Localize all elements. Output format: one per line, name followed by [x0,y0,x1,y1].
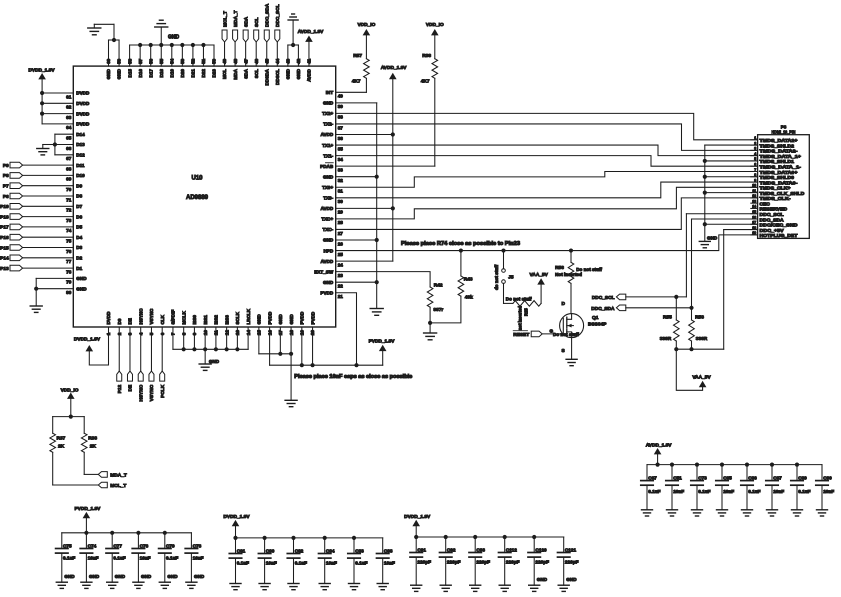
connector flag MDA_T [98,472,127,479]
svg-text:I2S3: I2S3 [224,315,229,325]
connector flag DDC_SDA [591,305,626,312]
svg-text:75: 75 [66,239,72,244]
connector flag MDA_T pin 48 [233,10,239,66]
svg-text:DE: DE [128,384,134,391]
junction GND pin17 [278,352,282,356]
svg-text:D10: D10 [76,173,85,178]
svg-text:P18: P18 [0,214,9,220]
svg-text:GND: GND [64,574,75,579]
svg-text:70: 70 [66,187,72,192]
svg-text:C74: C74 [88,543,97,548]
svg-text:TMDS_DATA0+: TMDS_DATA0+ [760,170,798,175]
wire R43 bottom to ground node [430,296,461,323]
svg-text:23: 23 [338,273,344,278]
junction DDC_SDA at R58 [689,306,693,310]
capacitor C90 10nF [816,465,834,510]
svg-text:R38: R38 [422,53,431,59]
ground symbol C82 [288,584,299,590]
junction C112 on rail [503,535,507,539]
svg-text:C90: C90 [823,475,832,480]
svg-text:P14: P14 [0,256,9,262]
svg-text:R57: R57 [353,53,362,59]
svg-text:GND: GND [289,314,294,325]
svg-text:76: 76 [66,249,72,254]
svg-text:GND: GND [194,574,205,579]
svg-text:10nF: 10nF [384,561,395,566]
svg-text:TMDS_DATA_1+: TMDS_DATA_1+ [760,154,802,159]
junction R42/R43 gnd node [428,321,432,325]
svg-text:do not stuff: do not stuff [494,264,499,290]
svg-text:R38: R38 [88,435,97,441]
ground symbol C83 [349,584,360,590]
capacitor C80 10nF [258,538,276,584]
svg-text:PVDD_1.8V: PVDD_1.8V [369,338,396,344]
svg-text:C83: C83 [355,548,364,553]
svg-text:MCL: MCL [222,69,227,79]
wire Q1 source to ground [562,338,572,360]
svg-text:GND: GND [707,236,718,241]
junction GND pin22 [375,280,379,284]
svg-text:RESERVED: RESERVED [760,207,788,212]
svg-text:VDD_IO: VDD_IO [357,22,375,28]
svg-text:MDA_T: MDA_T [110,473,127,479]
svg-text:I2S1: I2S1 [203,315,208,325]
svg-text:D18: D18 [159,69,164,78]
capacitor C92 220pF [440,537,461,585]
svg-text:TMDS_CLK-: TMDS_CLK- [760,196,792,201]
svg-text:30: 30 [338,199,344,204]
capacitor C75 0.1uF [56,533,76,582]
power PVDD_1.8V arrow [74,506,101,533]
svg-text:AVDD_1.8V: AVDD_1.8V [298,29,325,35]
svg-text:RESET: RESET [513,332,529,338]
svg-text:SDA: SDA [243,68,248,78]
capacitor C88 10nF [377,538,395,584]
U10 left-edge pin names [76,91,90,292]
svg-text:5: 5 [754,157,756,161]
ground symbol shield [699,241,710,247]
svg-text:Not inserted: Not inserted [555,272,582,277]
capacitor C51 10nF [666,465,684,510]
svg-text:220pF: 220pF [535,560,549,565]
junction R55 bottom [674,347,678,351]
svg-text:19: 19 [752,231,756,235]
svg-text:D3: D3 [76,245,82,250]
connector flag DDC_SCL [592,294,626,301]
svg-text:17: 17 [752,221,756,225]
capacitor C121 220pF [558,537,579,585]
svg-text:DDC_SDA: DDC_SDA [264,3,270,27]
svg-text:34: 34 [338,157,344,162]
svg-text:39: 39 [338,104,344,109]
svg-text:10nF: 10nF [326,561,337,566]
svg-text:64: 64 [66,125,72,130]
svg-text:72: 72 [66,208,72,213]
wire GND pins 39,32,26,22 to ground rail [336,103,377,309]
svg-text:D4: D4 [76,235,82,240]
svg-text:C120: C120 [535,547,547,552]
svg-text:TMDS_SHLD2: TMDS_SHLD2 [760,143,795,148]
svg-text:PVDD_1.8V: PVDD_1.8V [74,506,101,512]
svg-text:2K: 2K [58,444,65,450]
svg-text:2: 2 [754,141,756,145]
svg-text:VDD_IO: VDD_IO [61,388,79,394]
wire AVDD_1.8V decoupling rail [647,464,822,466]
junctions audio bus [182,347,240,351]
junction AVDD pin36 [391,132,395,136]
svg-text:2K: 2K [90,444,97,450]
svg-text:10nF: 10nF [193,556,204,561]
svg-text:C51: C51 [673,475,682,480]
svg-text:D12: D12 [76,153,85,158]
ground symbol C75 [56,582,67,588]
junction C85 on rail [720,463,724,467]
svg-text:26: 26 [338,241,344,246]
svg-text:C86: C86 [748,475,757,480]
junction shield pin11 [703,191,707,195]
svg-text:TX2+: TX2+ [322,111,333,116]
junction C91 on rail [414,535,418,539]
svg-text:PVDD: PVDD [310,311,315,324]
capacitor C112 220pF [499,537,520,585]
svg-text:GND: GND [209,359,220,364]
wire TXC- pin27 to TMDS_CLK- [336,198,758,230]
svg-text:DDC_SCL: DDC_SCL [760,212,784,217]
svg-text:GND: GND [323,174,334,179]
svg-text:TMDS_CLK_SHLD: TMDS_CLK_SHLD [760,191,806,196]
svg-text:0.1uF: 0.1uF [63,556,75,561]
svg-text:10nF: 10nF [673,489,684,494]
ground symbol C78 [186,582,197,588]
svg-text:R56: R56 [555,265,564,271]
svg-text:10nF: 10nF [723,489,734,494]
svg-text:10nF: 10nF [140,556,151,561]
junction PVDD pin19 [300,363,304,367]
junction PVDD pin21 wire [354,363,358,367]
svg-text:C92: C92 [447,547,456,552]
junction GND pin18 [289,352,293,356]
wire TX1+ pin35 to TMDS_DATA_1+ [336,145,758,156]
svg-text:0.1uF: 0.1uF [113,556,125,561]
svg-text:TX0+: TX0+ [322,185,333,190]
junction AVDD_1.8V arrow on rail [656,463,660,467]
svg-text:TMDS_DATA2+: TMDS_DATA2+ [760,138,798,143]
svg-text:GND: GND [141,574,152,579]
connector flag VSYNC at pin 5 [149,327,155,401]
svg-text:P6: P6 [3,194,9,200]
ground symbol C93 [470,585,481,591]
ground symbol C84 [319,584,330,590]
svg-text:GND: GND [566,577,577,582]
junction shield pin8 [703,175,707,179]
ground symbol below Q1 [566,359,577,365]
capacitor C82 0.1uF [287,538,307,584]
connector flag DE at pin 3 [127,327,133,391]
svg-text:P17: P17 [0,225,9,231]
connector flag P18 to pin 73 [0,214,73,221]
svg-text:220pF: 220pF [417,560,431,565]
svg-text:330R: 330R [660,336,672,342]
svg-text:73: 73 [66,218,72,223]
svg-text:79: 79 [66,280,72,285]
svg-text:32: 32 [338,178,344,183]
ground symbol at D12-D14 [37,149,49,155]
svg-text:C91: C91 [417,547,426,552]
svg-text:DVDD: DVDD [76,101,90,106]
svg-text:C78: C78 [193,543,202,548]
svg-text:R55: R55 [663,314,672,320]
svg-text:PVDD: PVDD [320,290,333,295]
svg-text:P7: P7 [3,184,9,190]
svg-text:I2S2: I2S2 [214,315,219,325]
wire GND pins 59,60 to ground [94,24,119,66]
wire R55/R58 common node to DDC_+5V [676,230,757,350]
svg-text:HOTPLUG_DET: HOTPLUG_DET [760,233,798,238]
ground symbol below R42 [424,323,437,340]
svg-text:8: 8 [754,173,756,177]
svg-text:D20: D20 [180,69,185,78]
svg-text:220pF: 220pF [506,560,520,565]
svg-text:AVDD_1.8V: AVDD_1.8V [646,442,673,448]
svg-text:330R: 330R [696,336,708,342]
wire HPD pin25 to HOTPLUG_DET [336,235,758,251]
svg-text:15: 15 [752,210,756,214]
ground symbol C51 [667,510,678,516]
svg-text:D21: D21 [191,69,196,78]
svg-text:D7: D7 [76,204,82,209]
svg-text:AVDD: AVDD [321,206,334,211]
svg-text:40: 40 [338,94,344,99]
svg-text:GND: GND [167,574,178,579]
junction D13 pin66 [53,142,57,146]
svg-text:220pF: 220pF [565,560,579,565]
U10 right-edge pin numbers 21-40 [338,94,344,299]
svg-text:R42: R42 [434,283,443,289]
capacitor C83 0.1uF [348,538,368,584]
svg-text:GND: GND [278,314,283,325]
junction DVDD pin62 [40,101,44,105]
svg-text:GND: GND [115,574,126,579]
svg-text:7: 7 [754,168,756,172]
ground symbol C120 [529,585,540,591]
svg-text:D13: D13 [76,142,85,147]
ground symbol C79 [159,582,170,588]
wire R37 to MCL_T [53,452,99,485]
svg-text:P12: P12 [117,384,123,393]
svg-text:C82: C82 [295,548,304,553]
connector flag DDC_SCL pin 44 [275,4,281,66]
svg-text:TX2-: TX2- [323,122,333,127]
junction DVDD pin63 [40,112,44,116]
U10 right-edge pin names [314,90,334,295]
wire R38 to MDA_T [84,452,98,474]
junction C89 on rail [795,463,799,467]
svg-text:R58: R58 [695,314,704,320]
junction AVDD pin29 [391,206,395,210]
svg-text:Please place R74 close as poss: Please place R74 close as possible to Pi… [401,241,520,247]
svg-text:80: 80 [66,290,72,295]
U10 left-edge pin numbers 61-80 [66,94,72,295]
svg-text:HDMI_19_PIN: HDMI_19_PIN [772,130,797,135]
svg-text:J5: J5 [508,275,514,281]
svg-text:SCLK: SCLK [235,311,240,324]
power DVDD_1.8V pins 61-64 [28,68,73,124]
svg-text:0.1uF: 0.1uF [237,561,249,566]
svg-text:PCLK: PCLK [160,384,166,398]
connector flag P9 to pin 68 [3,162,73,169]
junction C82 on rail [291,536,295,540]
resistor R42 887r [427,283,443,314]
svg-text:0.1uF: 0.1uF [355,561,367,566]
svg-text:AVDD: AVDD [307,68,312,81]
svg-text:D0: D0 [117,318,122,324]
ground symbol C73 [692,510,703,516]
wire audio bus pins 7-14 to ground [173,327,248,364]
svg-text:C75: C75 [63,543,72,548]
header J5 do-not-stuff jumper [494,251,514,290]
connector flag MCL_T [98,482,126,489]
junction pins 42/43 gnd [291,43,295,47]
svg-text:66: 66 [66,146,72,151]
svg-text:INT: INT [326,90,334,95]
wire DDC_SCL to HDMI pin15 [626,214,758,297]
svg-text:AD9889: AD9889 [186,195,209,201]
svg-text:0.1uF: 0.1uF [798,489,810,494]
U10 top-edge pin names [106,68,311,85]
svg-text:1: 1 [754,136,756,140]
svg-text:74: 74 [66,228,72,233]
wire DVDD_1.8V decoupling rail [236,537,383,539]
svg-text:4: 4 [754,152,756,156]
svg-text:MCL_T: MCL_T [110,483,126,489]
junction PVDD pin20 [310,363,314,367]
svg-text:VAA_5V: VAA_5V [530,272,549,278]
junction C73 on rail [695,463,699,467]
svg-text:Do not stuff: Do not stuff [553,332,579,337]
wire D12-D14 pins 65-67 to ground [43,134,74,155]
capacitor C89 0.1uF [791,465,811,510]
junctions on D15-D23 gnd bus [138,43,206,47]
wire EXT_SW pin23 to R42 [336,272,430,287]
connector flag DDC_SDA pin 45 [264,3,270,66]
svg-text:P15: P15 [0,245,9,251]
svg-text:BSS84P: BSS84P [588,322,607,328]
ground symbol below pins 79/80 [30,306,42,312]
resistor R38 4K7 pullup on PD [421,53,438,85]
ground symbol C91 [411,585,422,591]
junction C76 on rail [136,531,140,535]
svg-text:C85: C85 [723,475,732,480]
connector flag P12 at pin 2 [117,327,123,393]
svg-text:DE: DE [128,318,133,324]
svg-text:63: 63 [66,115,72,120]
ground symbol C67 [642,510,653,516]
svg-text:21: 21 [338,294,344,299]
svg-text:P16: P16 [0,235,9,241]
connector flag P7 to pin 70 [3,183,73,190]
resistor R37 2K [50,433,66,452]
svg-text:C73: C73 [698,475,707,480]
wire DVDD_1.8V decoupling rail [416,536,564,538]
svg-text:AVDD: AVDD [321,259,334,264]
svg-text:EXT_SW: EXT_SW [314,269,334,274]
svg-text:C88: C88 [384,548,393,553]
svg-text:D11: D11 [76,163,85,168]
svg-text:TMDS_CLK+: TMDS_CLK+ [760,186,791,191]
junction C87 on rail [770,463,774,467]
wire PVDD pins 16,19,20 rail [270,327,383,365]
wire RESET to Q1 gate [542,329,579,337]
wire TX1- pin34 to TMDS_DATA_1- [336,156,758,167]
svg-text:TX1+: TX1+ [322,143,333,148]
power VAA_5V at R25 [530,272,549,304]
wire R42 bottom to ground node [429,307,431,323]
junction C79 on rail [163,531,167,535]
svg-text:D1: D1 [76,266,82,271]
svg-text:18: 18 [752,226,756,230]
svg-text:D6: D6 [76,214,82,219]
svg-text:SDA: SDA [243,16,249,27]
junction GND pin26 [375,238,379,242]
wire INT pin 40 to R57 [336,78,367,92]
ground symbol below pin18 [285,400,297,406]
wire TX2+ pin38 to TMDS_DATA2+ [336,113,758,139]
svg-text:68: 68 [66,166,72,171]
svg-text:38: 38 [338,115,344,120]
wire PD pin 33 to R38 [336,78,435,166]
svg-text:VAA_5V: VAA_5V [692,375,711,381]
svg-text:DDSCL: DDSCL [275,69,280,85]
junction C93 on rail [473,535,477,539]
junction C81 on rail [233,536,237,540]
connector P8 HDMI_19_PIN [751,125,810,239]
wire GND pins 15,17,18 to ground [259,327,291,400]
svg-text:PVDD: PVDD [267,311,272,324]
ground symbol C86 [742,510,753,516]
svg-text:DDSDA: DDSDA [264,68,269,85]
svg-text:C81: C81 [237,548,246,553]
ground symbol below GND rail [370,309,383,316]
capacitor C84 10nF [319,538,337,584]
svg-text:TMDS_DATA2-: TMDS_DATA2- [760,149,799,154]
svg-text:TMDS_SHLD0: TMDS_SHLD0 [760,175,795,180]
svg-text:11: 11 [752,189,756,193]
power DVDD_1.8V arrow [223,514,250,538]
svg-text:PDAB: PDAB [320,164,334,169]
svg-text:67: 67 [66,156,72,161]
svg-text:TX1-: TX1- [323,153,333,158]
junction pins 59/60 gnd [112,38,116,42]
svg-text:GND: GND [537,577,548,582]
junction C120 on rail [532,535,536,539]
ground symbol C92 [440,585,451,591]
capacitor C79 0.1uF [159,533,179,582]
svg-text:P8: P8 [3,173,9,179]
svg-text:10: 10 [752,184,756,188]
resistor R25 not-inserted [504,283,542,330]
svg-text:GND: GND [89,574,100,579]
svg-text:DVDD: DVDD [76,91,90,96]
svg-text:D15: D15 [127,69,132,78]
svg-text:GND: GND [323,280,334,285]
svg-text:D19: D19 [170,69,175,78]
power VDD_IO above R37/R38 [61,388,79,417]
svg-text:P19: P19 [0,204,9,210]
svg-text:I2S0: I2S0 [192,315,197,325]
connector flag P19 to pin 72 [0,204,73,211]
U10 bottom-edge pin numbers 1-20 [106,330,315,336]
wire TMDS shield pins 2,5,8,11,17 to ground [705,145,758,241]
